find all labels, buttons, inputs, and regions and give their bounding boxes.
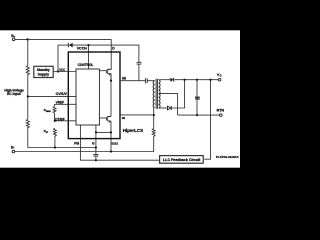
wire internal S line: [96, 131, 111, 133]
wire left HV rail lower + rail A: [28, 127, 96, 148]
wire internal lower source to S node: [110, 121, 112, 151]
node cap RTN: [196, 114, 198, 116]
wire VCCH line right: [73, 45, 139, 62]
node RDT bottom rail A: [54, 146, 56, 148]
wire Vo sense drop: [204, 80, 210, 160]
wire RTN: [178, 114, 220, 116]
wire VCC node vertical: [57, 45, 59, 71]
node S internal left: [95, 131, 97, 133]
terminal B-: [12, 150, 15, 153]
svg-text:VCC: VCC: [59, 68, 65, 72]
svg-text:HiperLCS: HiperLCS: [123, 128, 144, 134]
wire RDT bottom to rail A: [54, 136, 56, 147]
wire lower gate: [99, 117, 106, 119]
resistor R upper divider: [26, 66, 29, 75]
diode bootstrap VCCH: [68, 43, 72, 48]
IC package box U1: [68, 52, 120, 139]
svg-text:DT/BF: DT/BF: [55, 117, 64, 121]
wire VREF: [55, 104, 76, 106]
resistor RFMAX: [53, 106, 56, 113]
wire sense R top: [153, 108, 155, 129]
terminal RTN: [220, 114, 223, 117]
wire Vo rail: [174, 79, 218, 81]
wire G internal drop: [95, 125, 97, 154]
node sense Vo: [209, 79, 211, 81]
wire secondary bottom: [159, 107, 168, 109]
node G cap rail C: [95, 159, 97, 161]
wire VCCH line left: [58, 44, 68, 46]
wire VCCH pin into IC: [88, 45, 90, 69]
svg-text:O: O: [220, 75, 222, 78]
svg-text:OV/UV: OV/UV: [56, 92, 68, 96]
CONTROL box: [76, 69, 99, 125]
wire left HV rail mid: [27, 74, 29, 119]
svg-text:S1/S2: S1/S2: [112, 142, 119, 146]
svg-text:CONTROL: CONTROL: [78, 63, 94, 67]
capacitor series resonant (vertical plates): [145, 78, 147, 83]
transistor upper MOSFET: [106, 69, 111, 81]
top black bar: [0, 0, 240, 30]
wire center tap: [159, 94, 178, 116]
transistor lower MOSFET: [106, 116, 111, 123]
node HB internal: [110, 80, 112, 82]
svg-text:VREF: VREF: [56, 100, 64, 104]
node OV/UV tap: [27, 95, 29, 97]
wire VCCH cap to HB: [138, 64, 140, 80]
wire B+ rail: [15, 38, 111, 40]
svg-text:LLC Feedback Circuit: LLC Feedback Circuit: [163, 158, 201, 162]
capacitor G bypass: [93, 154, 98, 156]
core: [156, 79, 157, 109]
node B+ / divider: [26, 38, 28, 40]
node S internal right: [110, 131, 112, 133]
node G rail A: [95, 146, 97, 148]
svg-text:VCCH: VCCH: [77, 47, 88, 51]
wire IS: [120, 114, 154, 116]
node VCC: [57, 70, 59, 72]
wire rail B: [15, 136, 154, 151]
terminal Vo: [218, 78, 221, 81]
resistor RDT: [53, 128, 56, 136]
wire upper gate: [99, 70, 106, 72]
svg-text:IS: IS: [122, 116, 125, 120]
wire series cap to primary: [147, 80, 154, 82]
svg-text:DC Input: DC Input: [7, 92, 22, 96]
wire DT/BF: [55, 120, 76, 122]
wire VCC into IC: [53, 71, 76, 73]
node IS sense: [153, 114, 155, 116]
svg-text:RTN: RTN: [217, 109, 225, 113]
capacitor output electrolytic: [195, 97, 200, 99]
svg-text:HB: HB: [122, 76, 126, 80]
terminal B+: [12, 38, 15, 41]
node VCCH: [87, 44, 89, 46]
svg-text:Supply: Supply: [38, 72, 50, 76]
white schematic area: [0, 30, 240, 168]
node cap Vo: [196, 79, 198, 81]
transformer T1: [153, 79, 160, 109]
LLC feedback circuit box: [160, 156, 204, 164]
wire D pin drop: [108, 39, 111, 69]
node DT/BF: [54, 120, 56, 122]
node S1S2 rail B: [110, 150, 112, 152]
wire G cap bottom: [95, 156, 97, 160]
resistor sense: [152, 128, 155, 136]
standby supply box: [34, 66, 53, 77]
wire output cap branch: [196, 80, 198, 115]
wire left HV rail upper: [27, 39, 29, 65]
resistor R lower divider: [26, 119, 29, 128]
node D2 Vo: [184, 79, 186, 81]
wire FB drop and rail C: [80, 125, 159, 160]
wire OV/UV: [28, 95, 76, 97]
svg-text:PI-6709-010613: PI-6709-010613: [216, 156, 239, 159]
diode output D1: [170, 78, 173, 82]
primary winding: [153, 81, 155, 108]
capacitor VCCH (horizontal plates): [137, 62, 142, 64]
svg-text:FB: FB: [74, 141, 79, 145]
svg-text:G: G: [92, 141, 95, 145]
wire internal bus upper: [108, 74, 111, 116]
wire secondary top to Vo: [159, 79, 171, 81]
diode output D2: [167, 106, 171, 110]
bottom black bar: [0, 168, 240, 200]
wire RFMAX bottom to DT/BF: [54, 113, 56, 121]
secondary winding: [159, 80, 161, 108]
wire diode2 out: [172, 80, 185, 108]
wire HB out: [121, 80, 146, 82]
